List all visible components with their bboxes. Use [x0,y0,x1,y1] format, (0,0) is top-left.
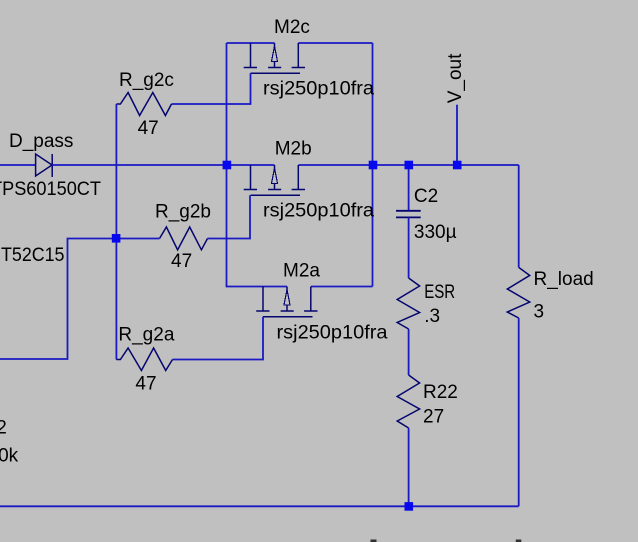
wire: M2c gate lead [172,73,251,104]
wire: gate tie down to R_g2a [115,239,117,360]
junction: bus / C2 branch [405,161,414,170]
svg-text:rsj250p10fra: rsj250p10fra [263,200,374,221]
svg-text:M2a: M2a [283,261,320,282]
svg-text:47: 47 [138,118,159,139]
svg-text:10k: 10k [0,446,19,467]
text fragment bottom left of center [371,540,377,542]
text fragment bottom right [516,540,522,542]
svg-text:R22: R22 [423,382,458,403]
wire: M2a gate lead [173,317,264,360]
svg-text:R_g2c: R_g2c [119,70,174,91]
junction: bus / source tie [223,161,232,170]
resistor R_g2c [116,93,171,116]
wire: M2b gate lead [208,195,251,238]
wire: gate net to zener branch [0,239,116,360]
wire: R_load to bottom rail [518,318,520,506]
wire: V_out stub [456,105,458,165]
svg-text:47: 47 [171,251,192,272]
svg-text:3: 3 [534,302,545,323]
svg-text:R_g2b: R_g2b [155,202,211,223]
wire: main bus right segment (V_out net) [298,164,518,166]
svg-text:TPS60150CT: TPS60150CT [0,179,101,200]
wire: R_g2b left lead to junction [116,238,159,240]
svg-text:rsj250p10fra: rsj250p10fra [277,323,388,344]
wire: left source tie vertical x=226.5 [226,43,228,287]
wire: bus corner down to R_load [518,165,520,267]
junction: bottom rail / R22 [405,502,414,511]
svg-text:V_out: V_out [445,53,466,103]
resistor R22 [397,375,419,428]
svg-text:R2: R2 [0,418,7,439]
wire: M2a bottom rail [226,286,373,288]
wire: main bus left segment (source net) [52,164,274,166]
wire: C2 bottom plate to ESR [408,217,410,278]
svg-text:M2c: M2c [274,17,310,38]
wire: bottom ground rail [0,505,519,507]
junction: gate net node [112,234,121,243]
svg-text:27: 27 [423,407,444,428]
resistor R_load [507,267,529,318]
svg-text:R_g2a: R_g2a [118,325,174,346]
wire: ESR to R22 [408,329,410,375]
resistor R_g2b [160,227,208,250]
svg-text:330µ: 330µ [414,222,457,243]
svg-text:rsj250p10fra: rsj250p10fra [263,79,374,100]
svg-text:M2b: M2b [275,139,312,160]
wire: M2c top rail [227,42,373,44]
wire: bus to C2 top plate [408,165,410,211]
transistor M2b (pmos) [244,165,305,195]
wire: right drain tie vertical x=372.5 [372,43,374,287]
junction: bus / V_out stub [453,161,462,170]
svg-text:C2: C2 [414,186,438,207]
svg-text:ESR: ESR [424,282,455,303]
svg-text:T52C15: T52C15 [1,245,65,266]
wire: D_pass anode wire from left edge [0,164,36,166]
wire: R_g2c left lead down to gate tie [115,104,117,239]
capacitor C2 [396,211,421,218]
svg-text:D_pass: D_pass [9,131,73,152]
svg-text:.3: .3 [424,306,440,327]
svg-text:47: 47 [135,374,156,395]
transistor M2a (pmos, shifted right) [256,287,317,317]
svg-text:R_load: R_load [534,269,594,290]
resistor R_g2a [116,348,172,371]
junction: bus / drain tie [369,161,378,170]
wire: R22 to bottom rail [408,428,410,506]
transistor M2c (pmos) [244,43,305,73]
resistor ESR [397,278,419,329]
diode D_pass [36,154,53,177]
